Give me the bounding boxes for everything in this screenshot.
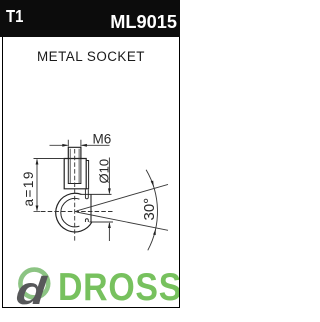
stud M6 outline — [68, 147, 81, 158]
dim diameter 10 arrows — [108, 188, 111, 194]
header bar — [0, 0, 180, 37]
logo letter d — [14, 270, 48, 314]
dim diameter 10 line — [108, 158, 110, 242]
centerline tick at dim a — [34, 211, 41, 213]
body top / a=19 extension line — [34, 158, 65, 160]
dim M6 arrow right — [81, 144, 87, 147]
socket bottom lip line — [90, 221, 114, 223]
socket front face — [90, 194, 92, 222]
body right step — [86, 161, 88, 189]
dim a=19 line — [36, 160, 38, 211]
30 degree cone line upper — [77, 184, 169, 211]
socket top lip line — [81, 193, 112, 195]
30 degree cone line lower — [77, 212, 169, 230]
dim M6 line right — [82, 144, 110, 146]
30 degree arrows on arc — [151, 181, 154, 187]
threaded hole edges — [68, 159, 81, 184]
logo text DROSS — [0, 0, 179, 322]
socket outer arc — [56, 193, 92, 232]
horizontal centerline — [41, 211, 113, 213]
vertical centerline — [74, 149, 76, 241]
header part number ML9015 — [110, 12, 177, 33]
thread minor lines — [70, 149, 79, 184]
socket inner arc — [61, 198, 80, 226]
dim M6 arrow left — [62, 144, 68, 147]
30 degree arc — [146, 170, 157, 251]
bottom clip — [85, 219, 88, 222]
dim M6 extension lines — [68, 140, 81, 147]
title METAL SOCKET — [0, 49, 182, 64]
card border frame — [2, 37, 180, 308]
header label T1 — [6, 6, 23, 27]
card border frame overlay (right border over S) — [2, 37, 180, 308]
body outline — [64, 159, 86, 189]
top clip — [85, 189, 88, 199]
dim M6 line left — [50, 144, 68, 146]
dim a=19 arrows — [36, 159, 39, 165]
logo ring — [20, 270, 48, 298]
